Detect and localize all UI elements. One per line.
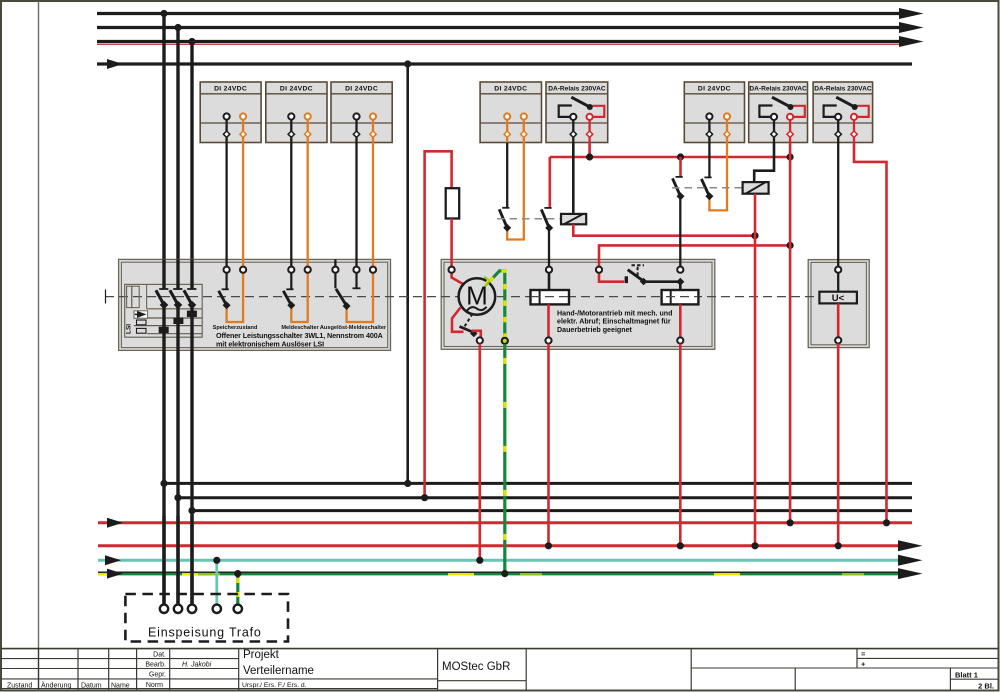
junction A-V407 xyxy=(404,480,411,487)
relay coil B xyxy=(743,182,769,194)
DA relay module K8 box xyxy=(813,82,873,143)
trafo terminal circles xyxy=(160,605,242,613)
bus L2 right arrow xyxy=(899,22,924,33)
coil M2 xyxy=(662,282,699,305)
breaker pole 3 contact xyxy=(184,259,197,351)
aux terminal stub S3a xyxy=(334,259,336,266)
DI module K3 box xyxy=(331,82,392,143)
junction RH1-K5 xyxy=(586,153,593,160)
junction B-P2 xyxy=(174,494,181,501)
wire K8 black to U-release xyxy=(837,143,839,267)
wire coil M1 to bus E xyxy=(547,344,550,546)
junction E-coilM2 xyxy=(677,542,684,549)
svg-text:Dauerbetrieb geeignet: Dauerbetrieb geeignet xyxy=(557,326,633,334)
title block top line xyxy=(1,648,999,650)
motor link dashes xyxy=(465,314,473,327)
manual switch in motor box xyxy=(599,265,684,285)
wire K7 black to coil B xyxy=(754,143,774,183)
trafo PE drop yellow stripes xyxy=(236,578,239,605)
DA relay module K5 box xyxy=(546,82,608,143)
svg-text:DI 24VDC: DI 24VDC xyxy=(494,86,527,93)
svg-text:Norm: Norm xyxy=(146,682,163,689)
svg-text:LSI: LSI xyxy=(126,324,133,334)
wire K5 red terminal to RH1 xyxy=(588,143,591,158)
bus L3 top xyxy=(97,40,906,43)
breaker box Q1 outer xyxy=(119,259,391,350)
bus L4 left arrow xyxy=(107,59,123,69)
switch S5 to motor drive xyxy=(673,157,685,267)
wire DI-K3 orange return xyxy=(372,143,374,267)
red control feed RH1 xyxy=(550,156,790,159)
bus D red xyxy=(98,521,912,524)
DI module K2 box xyxy=(266,82,327,143)
wire DI-K1 orange return xyxy=(242,143,244,267)
coil M1 Einschaltmagnet xyxy=(531,273,570,305)
red feed RH2 xyxy=(599,245,790,266)
switch S4a below K4 xyxy=(499,143,524,240)
bus E right arrow xyxy=(898,540,923,551)
phase wire P3 xyxy=(190,42,193,605)
junction RH2-K7 red xyxy=(787,242,794,249)
junction E-coilM1 xyxy=(545,542,552,549)
junction D-K8 xyxy=(883,519,890,526)
linkage dashes group B xyxy=(672,187,743,189)
bus G start yellow segment xyxy=(98,573,108,576)
wire K7 red down to bus D xyxy=(789,143,792,523)
junction F-trafo xyxy=(213,557,220,564)
linkage dashes group A xyxy=(497,218,561,220)
U-release terminal top xyxy=(835,267,841,273)
svg-text:Änderung: Änderung xyxy=(41,682,71,690)
svg-text:DI 24VDC: DI 24VDC xyxy=(280,86,313,93)
wire fuse to motor terminal xyxy=(450,219,453,267)
junction RH1 stub S5 xyxy=(677,153,684,160)
bus L3 right arrow xyxy=(899,36,924,47)
junction E-coilB xyxy=(751,542,758,549)
svg-text:M: M xyxy=(466,281,488,311)
title block right rows xyxy=(438,658,999,680)
title block left grid rows xyxy=(1,659,438,689)
junction coilA-755 xyxy=(751,232,758,239)
wire DI-K3 black to aux S3 xyxy=(355,143,357,267)
trafo PE drop green xyxy=(236,574,239,605)
bus L3 red underline xyxy=(97,43,908,45)
bus G PE green xyxy=(98,572,906,576)
motor drive box outer xyxy=(441,259,715,349)
bus L1 right arrow xyxy=(899,8,924,19)
bus G right arrow xyxy=(898,568,923,579)
svg-text:Verteilername: Verteilername xyxy=(243,665,314,677)
svg-text:Blatt 1: Blatt 1 xyxy=(955,671,978,680)
svg-text:DI 24VDC: DI 24VDC xyxy=(698,86,731,93)
U-release bottom wire red xyxy=(837,303,840,337)
breaker pole 1 contact xyxy=(156,259,169,351)
wire DI-K2 orange return xyxy=(307,143,309,267)
PE wire yellow stripes xyxy=(490,271,505,338)
wire U-release to bus E xyxy=(837,344,840,546)
svg-text:DI 24VDC: DI 24VDC xyxy=(345,86,378,93)
wire K5 black to coil A xyxy=(572,143,575,214)
trafo dashed box xyxy=(125,594,288,642)
junction B-fuse feed xyxy=(421,494,428,501)
bus B black xyxy=(178,496,912,499)
PE wire green from motor xyxy=(490,271,505,338)
svg-text:2 Bl.: 2 Bl. xyxy=(978,682,994,691)
motor driven blade xyxy=(460,327,476,334)
bus F right arrow xyxy=(898,555,923,566)
wire coil B down to bus E xyxy=(754,194,757,546)
motor blade blob xyxy=(470,330,477,337)
DA relay module K7 box xyxy=(749,82,808,143)
svg-text:Bearb.: Bearb. xyxy=(145,662,166,669)
motor M feed wire red xyxy=(452,273,464,284)
svg-text:DI 24VDC: DI 24VDC xyxy=(214,86,247,93)
fuse feed wire red xyxy=(425,151,452,497)
motor box terminal circles top xyxy=(449,267,684,273)
bus G yellow stripes xyxy=(98,573,906,576)
dash line over coil M1 xyxy=(531,296,569,298)
junction G-trafo xyxy=(234,570,241,577)
svg-text:Urspr./ Ers. F./ Ers. d.: Urspr./ Ers. F./ Ers. d. xyxy=(242,682,307,689)
title block right verticals xyxy=(438,649,951,691)
junction V407-L4 xyxy=(404,60,411,67)
breaker pole 2 contact xyxy=(170,259,184,351)
wire coil M2 to bus E xyxy=(679,344,682,546)
svg-text:Hand-/Motorantrieb mit mech. u: Hand-/Motorantrieb mit mech. und xyxy=(557,310,672,318)
left margin column line xyxy=(38,1,40,691)
svg-text:Datum: Datum xyxy=(81,683,102,690)
motor M1 circle xyxy=(459,278,496,315)
svg-text:Dat.: Dat. xyxy=(153,652,166,659)
bus F neutral cyan xyxy=(98,559,906,562)
junction P2-L2 xyxy=(174,24,181,31)
aux switch S1 Speicherzustand xyxy=(219,267,247,322)
junction RH1-K7 red xyxy=(787,153,794,160)
phase P1 overlay over buses xyxy=(162,516,165,605)
wire DI-K2 black to aux S2 xyxy=(290,143,292,267)
DI module K4 box xyxy=(480,82,541,143)
wires coils to bottom terminals red xyxy=(549,304,681,337)
svg-text:DA-Relais 230VAC: DA-Relais 230VAC xyxy=(749,86,807,93)
U-release top wire xyxy=(837,273,839,292)
bus L1 top xyxy=(97,12,906,15)
svg-text:Name: Name xyxy=(111,683,130,690)
bus G left arrow xyxy=(107,569,123,579)
junction E-Urelease xyxy=(835,542,842,549)
undervoltage release box outer xyxy=(808,260,869,348)
trafo N drop cyan xyxy=(215,560,218,604)
svg-text:DA-Relais 230VAC: DA-Relais 230VAC xyxy=(548,86,606,93)
svg-text:+: + xyxy=(861,659,866,668)
motor box terminal circles bottom xyxy=(477,337,684,344)
phase wire P2 xyxy=(176,28,179,605)
wire coil A to junction (red) xyxy=(573,224,755,235)
mechanism linkage dash-dot line xyxy=(105,296,819,298)
dash line over coil M2 xyxy=(662,296,698,298)
bus G dark top edge xyxy=(98,571,906,573)
wire DI-K1 black to aux S1 xyxy=(225,143,227,267)
svg-text:elektr. Abruf; Einschaltmagnet: elektr. Abruf; Einschaltmagnet für xyxy=(557,317,671,325)
switch S6 below K6 xyxy=(701,143,727,211)
junction G-PE drop xyxy=(501,570,508,577)
junction F-motor xyxy=(476,557,483,564)
junction P1-L1 xyxy=(160,10,167,17)
wire V407 from L4 to bus A xyxy=(406,64,409,483)
bus L4 control feed xyxy=(97,62,912,65)
switch S4b to motor drive xyxy=(541,157,553,267)
junction P3-L3 xyxy=(188,38,195,45)
U-release terminal bottom xyxy=(835,337,841,343)
svg-text:U<: U< xyxy=(832,293,845,304)
bus L2 top xyxy=(97,26,906,29)
motor output wire red xyxy=(452,308,464,332)
motor tilde xyxy=(467,307,487,311)
aux switch S3 Ausgeloest-Meldeschalter xyxy=(332,267,376,322)
breaker mechanism box xyxy=(125,284,203,337)
linkage left end tick xyxy=(105,290,107,304)
U-release label box xyxy=(819,292,857,304)
svg-text:DA-Relais 230VAC: DA-Relais 230VAC xyxy=(814,86,872,93)
PE drop yellow stripes xyxy=(503,344,506,574)
svg-text:Gepr.: Gepr. xyxy=(149,672,166,679)
junction C-P3 xyxy=(188,507,195,514)
aux switch S2 Meldeschalter xyxy=(283,267,311,322)
wire motor N to bus F xyxy=(478,344,481,561)
svg-text:H. Jakobi: H. Jakobi xyxy=(182,662,212,669)
title block left grid verticals xyxy=(39,649,239,691)
svg-text:Einspeisung Trafo: Einspeisung Trafo xyxy=(148,626,262,640)
relay coil A xyxy=(561,214,586,224)
svg-text:mit elektronischem Auslöser LS: mit elektronischem Auslöser LSI xyxy=(216,339,324,348)
phase P3 overlay over buses xyxy=(190,516,193,605)
bus C black xyxy=(192,509,912,512)
PE fork at motor xyxy=(484,277,489,286)
bus E red xyxy=(98,544,906,547)
bus G lightgreen stripes xyxy=(98,573,906,576)
svg-text:=: = xyxy=(861,650,866,659)
wire K8 red to bus D xyxy=(854,143,887,523)
bus D left arrow xyxy=(107,518,123,528)
phase P2 overlay over buses xyxy=(176,516,179,605)
DI module K6 box xyxy=(684,82,744,143)
svg-text:Projekt: Projekt xyxy=(243,649,280,661)
svg-text:Zustand: Zustand xyxy=(7,683,32,690)
fuse F1 xyxy=(446,188,460,218)
phase wire P1 xyxy=(162,14,165,605)
motor switch out red xyxy=(472,331,481,338)
wire PE to bus G xyxy=(503,344,506,574)
DI module K1 box xyxy=(200,82,261,143)
junction A-P1 xyxy=(160,480,167,487)
svg-text:MOStec GbR: MOStec GbR xyxy=(442,661,510,673)
junction D-K7 xyxy=(787,519,794,526)
bus A black xyxy=(164,482,912,485)
bus F left arrow xyxy=(105,555,121,565)
